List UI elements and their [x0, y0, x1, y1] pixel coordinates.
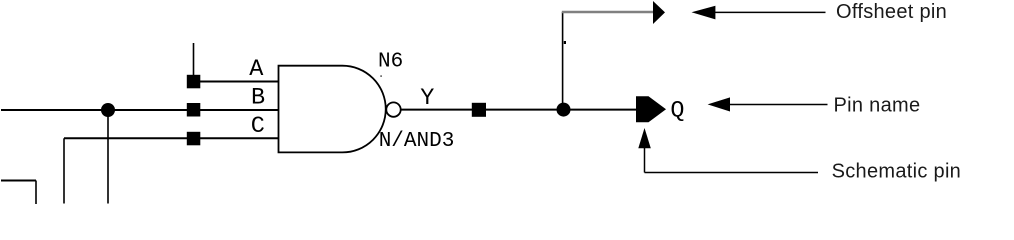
junction dot on net B — [101, 103, 115, 117]
annotation line for Offsheet pin — [714, 11, 826, 13]
svg-text:Pin name: Pin name — [834, 95, 921, 117]
svg-text:A: A — [249, 56, 264, 83]
wire vertical up to offsheet — [562, 12, 564, 110]
svg-text:Q: Q — [670, 98, 684, 125]
wire output Y — [401, 109, 636, 111]
svg-text:N/AND3: N/AND3 — [379, 130, 455, 153]
svg-text:N6: N6 — [378, 50, 403, 73]
NAND3 gate U1 inversion bubble — [386, 102, 400, 116]
wire net B horizontal — [1, 109, 279, 111]
wire bottom-left horizontal — [1, 180, 36, 182]
stray dot below N6 — [380, 75, 382, 77]
annotation arrowhead for Schematic pin — [638, 128, 651, 148]
wire vertical stub above input A — [193, 43, 195, 78]
svg-text:Y: Y — [420, 85, 434, 112]
svg-text:B: B — [251, 84, 265, 111]
NAND3 gate U1 body — [279, 66, 386, 153]
schematic pin symbol Q (solid pentagon) — [636, 96, 666, 122]
wire input A — [196, 81, 279, 83]
offsheet pin symbol (solid triangle) — [653, 1, 665, 24]
wire bottom-left vertical — [35, 181, 37, 205]
junction dot on output net — [557, 103, 571, 117]
annotation arrowhead for Offsheet pin — [692, 6, 716, 20]
annotation line for Pin name — [729, 104, 828, 106]
annotation arrowhead for Pin name — [708, 97, 730, 111]
wire vertical from C corner down — [63, 138, 65, 203]
connection square input A — [187, 75, 201, 89]
annotation horizontal line for Schematic pin — [645, 172, 819, 174]
connection square input B — [187, 103, 201, 117]
wire vertical from junction down — [107, 110, 109, 204]
svg-text:Schematic pin: Schematic pin — [832, 160, 962, 182]
annotation vertical line for Schematic pin — [644, 147, 646, 173]
svg-text:Offsheet pin: Offsheet pin — [836, 1, 947, 23]
connection square on output Y — [472, 103, 486, 117]
wire input C horizontal — [64, 137, 279, 139]
svg-text:C: C — [251, 113, 265, 140]
connection square input C — [187, 132, 201, 146]
wire gray horizontal to offsheet pin — [562, 11, 654, 14]
tick mark on vertical wire — [564, 41, 566, 44]
